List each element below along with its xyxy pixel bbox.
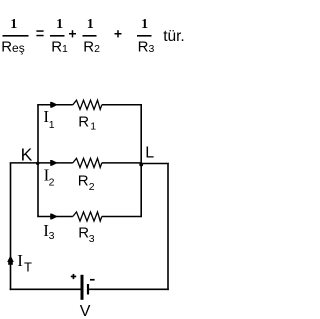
svg-text:L: L [145, 144, 154, 161]
wire: inner right vertical bus (node L column) [140, 105, 142, 217]
svg-text:3: 3 [89, 233, 95, 245]
svg-text:T: T [24, 259, 32, 274]
wire: outer right horizontal connector from node L [141, 163, 169, 165]
battery minus sign [90, 279, 95, 281]
resistor R2 zigzag [73, 158, 102, 167]
svg-text:R3: R3 [138, 38, 155, 55]
wire: outer right vertical [167, 163, 169, 290]
svg-text:R: R [78, 114, 89, 131]
wire: branch 2 horizontal (left of resistor, from outer left wire through K) [10, 162, 73, 164]
svg-text:Reş: Reş [1, 38, 25, 55]
arrow IT current direction (up) [7, 255, 14, 264]
arrow I3 current direction [50, 214, 58, 220]
svg-text:R2: R2 [83, 38, 100, 55]
wire: inner left vertical bus (node K column) [37, 105, 39, 217]
wire: branch 3 horizontal (right of resistor) [102, 216, 142, 218]
svg-text:1: 1 [90, 120, 96, 132]
svg-text:3: 3 [49, 230, 55, 242]
battery V negative short plate [87, 284, 89, 295]
formula plus sign 2 [115, 30, 122, 37]
svg-text:1: 1 [87, 17, 94, 32]
wire: branch 1 horizontal (left of resistor) [37, 104, 73, 106]
svg-text:K: K [21, 145, 33, 165]
svg-text:I: I [17, 251, 23, 270]
wire: outer left vertical [10, 163, 12, 290]
svg-text:2: 2 [89, 181, 95, 193]
formula equals sign [36, 30, 43, 36]
wire: bottom right horizontal from battery [89, 288, 169, 290]
svg-text:tür.: tür. [163, 28, 185, 45]
svg-text:1: 1 [56, 17, 63, 32]
battery V positive long plate [81, 275, 84, 300]
formula fraction bar 3 [83, 35, 97, 37]
svg-text:1: 1 [141, 17, 148, 32]
formula fraction bar 1 [3, 35, 29, 37]
junction node K dot [36, 162, 39, 165]
arrow I1 current direction [50, 102, 58, 108]
wire: branch 2 horizontal (right of resistor) [102, 162, 141, 164]
resistor R3 zigzag [73, 212, 102, 221]
junction node L dot [139, 163, 143, 167]
wire: branch 3 horizontal (left of resistor) [37, 216, 73, 218]
svg-text:R: R [78, 173, 89, 190]
formula fraction bar 2 [50, 35, 65, 37]
resistor R1 zigzag [73, 100, 102, 109]
svg-text:2: 2 [49, 176, 55, 188]
battery plus sign [71, 274, 76, 279]
formula fraction bar 4 [137, 35, 152, 37]
arrow I2 current direction [50, 160, 58, 166]
wire: branch 1 horizontal (right of resistor) [102, 104, 142, 106]
svg-text:R1: R1 [51, 38, 68, 55]
svg-text:1: 1 [49, 119, 55, 131]
wire: bottom left horizontal to battery [10, 288, 81, 290]
svg-text:V: V [80, 303, 91, 319]
formula plus sign 1 [69, 30, 76, 37]
svg-text:1: 1 [10, 17, 17, 32]
svg-text:R: R [78, 225, 89, 242]
